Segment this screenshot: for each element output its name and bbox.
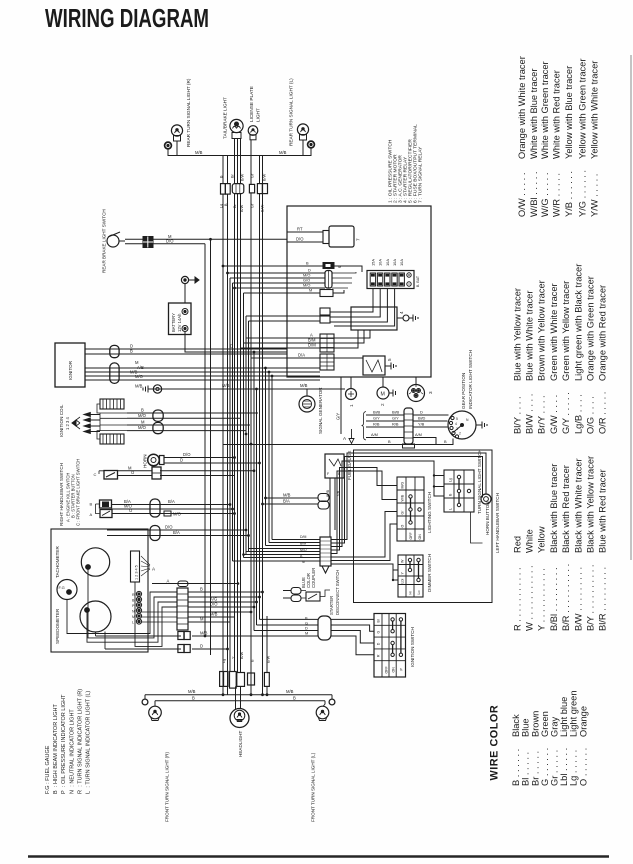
battery	[169, 303, 192, 335]
svg-text:O: O	[401, 525, 405, 528]
svg-text:Orange with Green tracer: Orange with Green tracer	[586, 276, 596, 381]
svg-text:O/W . . . . .: O/W . . . . .	[517, 173, 527, 217]
turn signal light switch grid	[444, 470, 474, 512]
svg-text:M: M	[305, 631, 308, 636]
cluster multi-pin connector	[177, 588, 188, 630]
svg-text:Black with Yellow tracer: Black with Yellow tracer	[586, 456, 596, 553]
starter motor 2	[377, 387, 389, 406]
fuel gauge wires down	[329, 478, 331, 537]
indicator abbreviation list bottom left	[45, 689, 92, 794]
svg-text:Blue with Yellow tracer: Blue with Yellow tracer	[512, 288, 522, 381]
svg-text:M/B: M/B	[279, 150, 287, 155]
bottom page rule	[28, 855, 609, 858]
front lights M/B bus	[145, 694, 332, 696]
svg-text:D/M: D/M	[300, 535, 307, 539]
svg-text:10A: 10A	[399, 259, 404, 266]
regulator/rectifier 5	[363, 356, 392, 375]
connector oval on ignitor lower wires	[110, 363, 119, 384]
svg-text:G/Y: G/Y	[373, 416, 380, 421]
svg-text:M/O: M/O	[135, 374, 144, 379]
connector pair rear turn L	[257, 184, 262, 194]
rear turn signal light (R) bulb	[165, 125, 183, 149]
svg-text:O/G . . . .: O/G . . . .	[586, 396, 596, 434]
fuse box terminals	[407, 273, 420, 287]
A arrow marker	[349, 429, 354, 444]
speedometer	[80, 601, 111, 632]
svg-text:B : HIGH BEAM INDICATOR LIGH: B : HIGH BEAM INDICATOR LIGHT	[53, 703, 59, 794]
headlight connectors	[220, 672, 228, 687]
svg-text:FRONT TURN SIGNAL LIGHT (R): FRONT TURN SIGNAL LIGHT (R)	[165, 752, 170, 822]
cluster connector output wires	[188, 591, 263, 593]
ignition coil windings bottom	[97, 431, 124, 444]
svg-text:Gr . . . . .: Gr . . . . .	[550, 750, 560, 786]
front turn signal light (L)	[316, 695, 335, 721]
svg-text:Lo: Lo	[417, 591, 421, 595]
indicator lamp strip 1-5	[131, 551, 157, 582]
svg-text:4: 4	[455, 422, 457, 426]
harness wires into 8-pin connector	[272, 539, 320, 541]
svg-text:Y/B . . . . . .: Y/B . . . . . .	[564, 171, 574, 217]
svg-text:IGNITION SWITCH: IGNITION SWITCH	[410, 627, 415, 667]
svg-text:A: A	[90, 512, 93, 517]
svg-text:M/O: M/O	[173, 512, 182, 517]
svg-text:M/O: M/O	[138, 425, 147, 430]
A link wire	[152, 583, 238, 585]
svg-text:5: 5	[387, 358, 392, 361]
svg-text:M/G: M/G	[401, 482, 405, 489]
svg-text:B . . . . . .: B . . . . . .	[511, 749, 521, 786]
svg-text:TACHOMETER: TACHOMETER	[55, 546, 60, 578]
svg-text:Blue with Red tracer: Blue with Red tracer	[598, 469, 608, 553]
svg-text:Gray: Gray	[550, 717, 560, 737]
starter relay 4	[351, 307, 404, 330]
connector stack B	[320, 334, 334, 352]
instrument cluster box	[51, 529, 148, 652]
svg-text:L: L	[449, 508, 453, 510]
svg-text:D/O: D/O	[166, 238, 174, 243]
svg-text:INDICATOR LIGHT SWITCH: INDICATOR LIGHT SWITCH	[468, 350, 473, 409]
svg-text:R . . . . . . . . . . .: R . . . . . . . . . . .	[512, 567, 522, 631]
svg-text:D: D	[230, 344, 233, 349]
svg-text:Y/B: Y/B	[418, 422, 425, 427]
svg-text:D/O: D/O	[183, 452, 191, 457]
svg-text:B/A: B/A	[168, 499, 175, 504]
svg-text:M/B: M/B	[200, 631, 208, 636]
svg-text:Orange: Orange	[578, 706, 588, 737]
svg-text:B: B	[141, 408, 144, 413]
svg-text:Red: Red	[512, 536, 522, 553]
handlebar harness 8-pin connector	[320, 537, 331, 573]
svg-text:12V 14Ah: 12V 14Ah	[177, 313, 182, 332]
svg-text:Blue with White tracer: Blue with White tracer	[525, 291, 535, 381]
cluster connector stub wires	[142, 612, 177, 622]
svg-text:White with Green tracer: White with Green tracer	[540, 61, 550, 159]
svg-text:SPEEDOMETER: SPEEDOMETER	[55, 608, 60, 644]
connector on brake wire	[143, 237, 153, 248]
svg-text:Black with Red tracer: Black with Red tracer	[561, 465, 571, 553]
engine kill switch C	[94, 471, 118, 480]
svg-text:RIGHT HANDLEBAR SWITCH: RIGHT HANDLEBAR SWITCH	[59, 463, 64, 526]
turn signal relay 7	[323, 226, 361, 247]
svg-text:GEAR POSITION: GEAR POSITION	[461, 373, 466, 409]
svg-text:Light green: Light green	[569, 690, 579, 737]
svg-text:Bl . . . . .: Bl . . . . .	[521, 752, 531, 786]
connector ovals on coil wires	[153, 410, 163, 421]
svg-text:B/Bl . . . . . . . . .: B/Bl . . . . . . . . .	[549, 567, 559, 631]
svg-text:Lg: Lg	[449, 478, 453, 482]
svg-text:D: D	[377, 642, 381, 645]
svg-text:White with Red tracer: White with Red tracer	[551, 70, 561, 159]
svg-text:ON: ON	[392, 667, 396, 673]
svg-text:B/W: B/W	[241, 173, 245, 181]
svg-text:A/B: A/B	[137, 365, 144, 370]
dimmer switch grid	[398, 555, 423, 597]
headlight	[230, 686, 249, 727]
svg-text:IGNITION COIL: IGNITION COIL	[59, 404, 64, 437]
spark plugs	[72, 413, 100, 434]
connector tail light 3-pin	[232, 184, 244, 194]
svg-text:SIGNAL GENERATOR: SIGNAL GENERATOR	[318, 387, 323, 434]
svg-text:3: 3	[456, 427, 458, 431]
svg-text:D/O: D/O	[296, 237, 304, 242]
cluster internal nested wiring	[67, 592, 177, 634]
svg-text:Green with White tracer: Green with White tracer	[549, 283, 559, 381]
svg-text:C: C	[94, 472, 97, 477]
fuel gauge dial F.G	[57, 580, 77, 600]
svg-text:Y . . . . . . . . . . .: Y . . . . . . . . . . .	[537, 568, 547, 631]
main electrical box	[287, 206, 431, 377]
numbered component list	[388, 124, 424, 203]
svg-text:Black with White tracer: Black with White tracer	[573, 458, 583, 553]
legend g3	[517, 56, 600, 217]
svg-text:D/O: D/O	[165, 525, 173, 530]
svg-text:Yellow with Blue tracer: Yellow with Blue tracer	[564, 66, 574, 159]
svg-text:Black: Black	[511, 714, 521, 737]
svg-text:15A: 15A	[370, 259, 375, 266]
wire drops from rear lights to connectors	[222, 156, 224, 184]
svg-text:A/M: A/M	[371, 432, 378, 437]
connector oval on ignitor upper wires	[110, 345, 119, 357]
starter relay lower wires	[246, 330, 370, 338]
svg-text:M/B: M/B	[210, 612, 218, 617]
svg-text:2: 2	[380, 403, 385, 406]
svg-text:B/Y . . . . . . . . . .: B/Y . . . . . . . . . .	[586, 565, 596, 631]
front brake switch wire pair	[107, 529, 246, 531]
svg-text:HORN: HORN	[143, 454, 148, 468]
coil core outline	[100, 413, 127, 431]
svg-text:Green: Green	[540, 711, 550, 737]
svg-text:10A: 10A	[378, 259, 383, 266]
svg-text:R: R	[377, 654, 381, 657]
svg-text:L : TURN SIGNAL INDICATOR LI: L : TURN SIGNAL INDICATOR LIGHT (L)	[86, 691, 92, 794]
handlebar fan wiring	[331, 453, 486, 540]
fuel gauge sender	[325, 454, 344, 478]
svg-text:M/B: M/B	[135, 384, 143, 389]
starter button switch B	[90, 500, 112, 508]
svg-text:Orange with Red tracer: Orange with Red tracer	[598, 285, 608, 381]
rear brake switch wires	[125, 238, 287, 240]
ignitor output wires upper pair	[85, 348, 287, 350]
svg-text:L: L	[132, 621, 134, 625]
svg-text:OFF: OFF	[385, 666, 389, 674]
legend g1	[512, 456, 607, 631]
svg-text:Brown: Brown	[530, 711, 540, 737]
svg-text:LIGHT: LIGHT	[256, 108, 261, 122]
main fuse connector	[323, 263, 334, 269]
ignition switch feed wires	[260, 618, 319, 620]
svg-text:5: 5	[456, 417, 458, 421]
svg-text:M: M	[141, 420, 145, 425]
M line connector	[320, 290, 333, 297]
svg-text:W/B: W/B	[326, 489, 330, 497]
svg-text:Bl/B: Bl/B	[373, 410, 381, 415]
svg-text:1: 1	[349, 404, 354, 407]
gear switch wires right	[413, 414, 449, 416]
signal generator	[299, 389, 315, 412]
svg-text:IGNITOR: IGNITOR	[68, 360, 73, 380]
svg-text:G/Y: G/Y	[336, 413, 341, 420]
trunk junction dots	[204, 238, 274, 696]
svg-text:M: M	[338, 264, 341, 269]
handlebar to trunk right pair	[266, 497, 319, 499]
horn wires	[164, 457, 235, 459]
svg-text:Bl/D: Bl/D	[418, 416, 426, 421]
svg-text:W . . . . . . . . . . .: W . . . . . . . . . . .	[525, 565, 535, 631]
front lights B bus	[155, 700, 325, 702]
svg-text:M/B: M/B	[188, 689, 196, 694]
svg-text:Yellow with White tracer: Yellow with White tracer	[589, 61, 599, 159]
svg-text:Black with Blue tracer: Black with Blue tracer	[549, 464, 559, 553]
svg-text:Bl/W . . . .: Bl/W . . . .	[525, 394, 535, 434]
lower cluster wires with connectors	[96, 635, 319, 637]
svg-text:White with Blue tracer: White with Blue tracer	[529, 69, 539, 159]
svg-text:B: B	[293, 696, 296, 701]
svg-text:Hi: Hi	[409, 591, 413, 595]
M/B ground bus wire	[148, 388, 345, 390]
svg-text:HORN BUTTON: HORN BUTTON	[485, 501, 490, 535]
svg-text:M: M	[200, 617, 204, 622]
svg-text:BATTERY: BATTERY	[171, 313, 176, 332]
svg-text:Lg: Lg	[222, 659, 226, 663]
fuse box drops to connectors	[330, 289, 373, 313]
svg-text:WIRING DIAGRAM: WIRING DIAGRAM	[45, 5, 209, 33]
tail/brake light bulb	[230, 119, 243, 138]
svg-text:B/R . . . . . . . . . .: B/R . . . . . . . . . .	[561, 564, 571, 631]
rear brake light switch	[107, 232, 125, 247]
svg-text:Bl/B: Bl/B	[392, 410, 400, 415]
rear turn signal light (L) bulb	[297, 124, 314, 148]
svg-text:F.G: F.G	[59, 585, 65, 590]
svg-text:3: 3	[428, 391, 433, 394]
svg-text:G/Y: G/Y	[392, 416, 399, 421]
indicator pin circles	[132, 591, 142, 624]
svg-text:R: R	[132, 593, 135, 597]
svg-text:P : OIL PRESSURE INDICATOR L: P : OIL PRESSURE INDICATOR LIGHT	[61, 694, 67, 794]
front turn signal light (R)	[142, 695, 161, 721]
engine kill contact A	[90, 504, 113, 518]
svg-text:M: M	[132, 615, 135, 619]
svg-text:B: B	[90, 502, 93, 507]
svg-text:Lbl . . . . .: Lbl . . . . .	[559, 748, 569, 786]
ignition feed connector	[318, 616, 331, 640]
svg-text:M/B: M/B	[195, 150, 203, 155]
svg-text:ON: ON	[418, 534, 422, 540]
svg-text:A: A	[167, 578, 170, 583]
svg-text:RT: RT	[297, 227, 303, 232]
svg-text:Yellow with Green tracer: Yellow with Green tracer	[577, 59, 587, 159]
svg-text:Light blue: Light blue	[559, 697, 569, 737]
svg-text:10A: 10A	[392, 259, 397, 266]
svg-text:COUPLER: COUPLER	[311, 568, 316, 588]
fuse box 6	[367, 271, 414, 289]
svg-text:D/A: D/A	[298, 353, 305, 358]
oil pressure switch 1	[346, 389, 357, 408]
svg-text:4: 4	[399, 311, 404, 314]
svg-text:DIMMER SWITCH: DIMMER SWITCH	[427, 554, 432, 592]
svg-text:G . . . . . .: G . . . . . .	[540, 748, 550, 786]
svg-text:R/B: R/B	[373, 422, 380, 427]
svg-text:W/G . . . . .: W/G . . . . .	[540, 173, 550, 217]
svg-text:Green with Yellow tracer: Green with Yellow tracer	[561, 281, 571, 381]
svg-text:B/W . . . . . . . . .: B/W . . . . . . . . .	[573, 567, 583, 631]
svg-text:B/M: B/M	[300, 542, 306, 546]
svg-text:Bl/Y . . . .: Bl/Y . . . .	[512, 396, 522, 434]
svg-text:FUEL GAUGE: FUEL GAUGE	[347, 451, 352, 480]
harness feeder wires into main box	[223, 266, 325, 321]
svg-text:B/W: B/W	[240, 651, 244, 659]
svg-text:M/B: M/B	[283, 493, 291, 498]
svg-text:M: M	[302, 560, 305, 564]
svg-text:Lg . . . . .: Lg . . . . .	[569, 750, 579, 786]
gear switch feed wires left	[366, 414, 404, 416]
tachometer	[81, 548, 109, 576]
svg-text:HEADLIGHT: HEADLIGHT	[238, 731, 243, 757]
legend g0	[511, 690, 588, 786]
svg-text:2: 2	[459, 432, 461, 436]
svg-text:R : TURN SIGNAL INDICATOR LI: R : TURN SIGNAL INDICATOR LIGHT (R)	[77, 689, 83, 794]
svg-text:M: M	[381, 392, 385, 398]
svg-text:B: B	[388, 439, 391, 444]
left handlebar switch box	[354, 450, 493, 603]
svg-text:A/M: A/M	[415, 432, 422, 437]
svg-text:Br . . . . .: Br . . . . .	[530, 751, 540, 786]
connector stack A	[320, 308, 330, 323]
svg-text:O . . . . . .: O . . . . . .	[578, 748, 588, 786]
gear switch feed brace	[362, 412, 367, 441]
svg-text:C : FRONT BRAKE LIGHT SWITCH: C : FRONT BRAKE LIGHT SWITCH	[76, 459, 81, 526]
ignition switch grid	[374, 614, 406, 678]
ground node near battery	[181, 276, 199, 303]
svg-text:D: D	[180, 458, 183, 463]
svg-text:O/R . . . . .: O/R . . . . .	[598, 392, 608, 434]
svg-text:M/B: M/B	[222, 383, 230, 388]
svg-text:B/A: B/A	[283, 499, 290, 504]
svg-text:OFF: OFF	[409, 532, 413, 540]
svg-text:White: White	[525, 529, 535, 553]
svg-text:M/O: M/O	[138, 413, 147, 418]
svg-text:G: G	[377, 631, 381, 634]
svg-text:7 : TURN SIGNAL RELAY: 7 : TURN SIGNAL RELAY	[418, 146, 424, 203]
svg-text:G/Y . . . . .: G/Y . . . . .	[561, 392, 571, 434]
svg-text:Blue: Blue	[521, 718, 531, 737]
svg-text:M/B: M/B	[286, 689, 294, 694]
svg-text:REAR BRAKE LIGHT SWITCH: REAR BRAKE LIGHT SWITCH	[102, 209, 107, 273]
A/M wire	[366, 437, 404, 439]
svg-text:10A: 10A	[385, 259, 390, 266]
extra trunk vertical	[210, 239, 212, 655]
lighting switch grid	[397, 477, 424, 541]
svg-text:Light green with Black tracer: Light green with Black tracer	[573, 264, 583, 381]
svg-text:Lbl: Lbl	[401, 579, 405, 584]
svg-text:REAR TURN SIGNAL LIGHT (L): REAR TURN SIGNAL LIGHT (L)	[289, 78, 294, 146]
svg-text:M/B: M/B	[300, 383, 308, 388]
svg-text:Br/Y . . . .: Br/Y . . . .	[537, 395, 547, 434]
svg-text:Y/G . . . . . .: Y/G . . . . . .	[577, 170, 587, 217]
svg-text:F.G : FUEL GAUGE: F.G : FUEL GAUGE	[45, 745, 51, 794]
feeder 4-pin connector	[325, 264, 356, 288]
svg-text:Lg/B . . . .: Lg/B . . . .	[573, 394, 583, 434]
battery output wire	[185, 332, 287, 353]
svg-text:LIGHTING SWITCH: LIGHTING SWITCH	[427, 492, 432, 533]
main harness trunk vertical wires	[205, 193, 272, 695]
ignition coil windings top	[97, 399, 124, 413]
svg-text:B/W: B/W	[263, 173, 267, 181]
ignition coil output wires	[127, 412, 258, 414]
connector stack C	[320, 354, 334, 370]
legend g2	[512, 264, 607, 434]
ignitor	[55, 343, 85, 387]
svg-text:LEFT HANDLEBAR SWITCH: LEFT HANDLEBAR SWITCH	[495, 493, 500, 553]
G/Y drop wire	[340, 377, 342, 434]
svg-text:D/M: D/M	[308, 343, 316, 348]
svg-text:B: B	[200, 587, 203, 592]
license plate light bulb	[248, 126, 258, 140]
svg-text:B: B	[130, 349, 133, 354]
svg-text:W/Bl . . . . .: W/Bl . . . . .	[529, 172, 539, 217]
svg-text:FRONT TURN SIGNAL LIGHT (L): FRONT TURN SIGNAL LIGHT (L)	[311, 752, 316, 822]
svg-text:Yellow: Yellow	[537, 526, 547, 553]
rear lights M/B bus wire	[168, 148, 311, 156]
a.c. generator 3	[408, 384, 434, 402]
connector license	[249, 184, 254, 193]
svg-text:Bl: Bl	[377, 619, 381, 622]
gear position rotary switch	[448, 411, 476, 439]
scan page edge artifact	[630, 55, 632, 560]
svg-text:1 2 3 4 5: 1 2 3 4 5	[135, 565, 139, 580]
svg-text:D/O: D/O	[210, 602, 218, 607]
svg-text:D: D	[200, 644, 203, 649]
svg-text:B: B	[192, 696, 195, 701]
svg-text:W/R . . . . .: W/R . . . . .	[551, 173, 561, 217]
svg-text:B/A: B/A	[173, 530, 180, 535]
connector pair rear turn R	[221, 184, 226, 195]
svg-text:TURN SIGNAL LIGHT SWITCH: TURN SIGNAL LIGHT SWITCH	[477, 449, 482, 514]
svg-text:N: N	[132, 610, 135, 614]
svg-text:Bl/R . . . . . . . . .: Bl/R . . . . . . . . .	[598, 567, 608, 631]
svg-text:TAIL/BRAKE LIGHT: TAIL/BRAKE LIGHT	[223, 97, 228, 139]
B/W drop wire	[266, 616, 268, 695]
ignitor output wires lower group	[85, 367, 320, 369]
svg-text:DISCONNECT SWITCH: DISCONNECT SWITCH	[335, 570, 340, 615]
svg-text:G/W . . . .: G/W . . . .	[549, 395, 559, 434]
svg-text:Orange with White tracer: Orange with White tracer	[517, 56, 527, 159]
svg-text:N : NEUTRAL INDICATOR LIGHT: N : NEUTRAL INDICATOR LIGHT	[69, 709, 75, 794]
svg-text:M/O: M/O	[300, 548, 307, 552]
gear position connector bar	[403, 408, 415, 448]
svg-text:REAR TURN SIGNAL LIGHT (R): REAR TURN SIGNAL LIGHT (R)	[186, 78, 191, 147]
svg-text:M: M	[309, 288, 312, 293]
svg-text:W/B: W/B	[401, 494, 405, 501]
